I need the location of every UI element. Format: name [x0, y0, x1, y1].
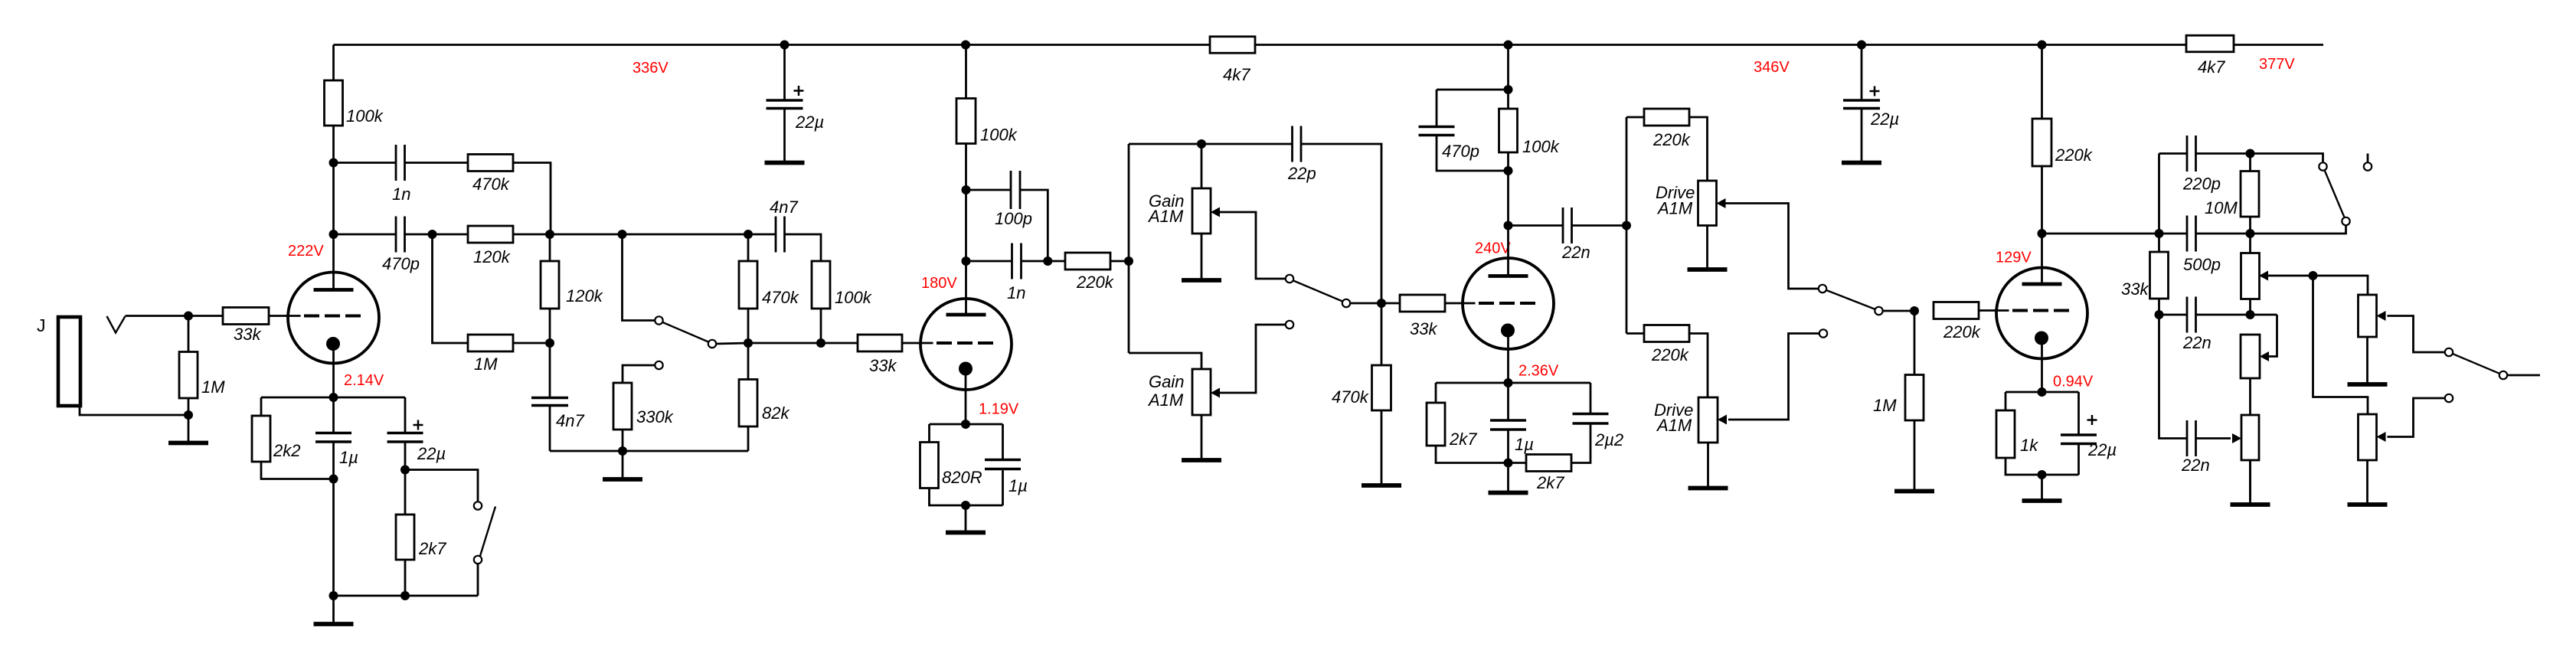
wire 220k to gain node [1110, 260, 1129, 263]
svg-text:2k7: 2k7 [418, 539, 446, 558]
plus 22u cathode [414, 420, 423, 430]
wire to switch S1 pole [2251, 154, 2323, 163]
node V2 cathode [961, 420, 970, 429]
label 1M [1873, 396, 1897, 415]
ground V3 cathode [1489, 463, 1528, 493]
wire drive column [1626, 117, 1628, 334]
svg-text:129V: 129V [1996, 250, 2032, 266]
wire 220p row right [2196, 152, 2251, 155]
svg-text:240V: 240V [1475, 240, 1511, 257]
wire drive1 wiper [1726, 204, 1819, 289]
svg-text:1M: 1M [474, 355, 498, 374]
svg-text:1M: 1M [1873, 396, 1897, 415]
wire to 33k V3 [1381, 302, 1400, 305]
wire row to S1 lower [2251, 226, 2346, 234]
switch S2 throw up [2445, 348, 2453, 356]
wire 2k7 top [404, 470, 407, 515]
svg-text:22µ: 22µ [1870, 109, 1899, 129]
label 470p [382, 254, 420, 273]
svg-text:1.19V: 1.19V [979, 401, 1019, 418]
switch C pole [1875, 307, 1882, 315]
ground filter 1 [765, 109, 805, 163]
capacitor 22n tone upper [2187, 297, 2196, 333]
ground V1 cathode [314, 596, 354, 624]
switch B lever [1293, 281, 1342, 302]
svg-text:22p: 22p [1287, 164, 1316, 183]
resistor 330k [613, 383, 632, 430]
label 22n [2181, 456, 2210, 475]
label 22µ [2087, 440, 2117, 459]
svg-text:33k: 33k [869, 356, 897, 375]
label A1M [1147, 207, 1184, 226]
node V1 plate row2 [329, 230, 338, 239]
svg-text:222V: 222V [288, 243, 324, 260]
svg-text:100k: 100k [1522, 137, 1560, 156]
svg-text:10M: 10M [2205, 198, 2238, 217]
wire 22p to V3 grid node [1301, 144, 1381, 303]
label 336V rail [633, 60, 669, 77]
resistor 100k vertical mixer [812, 261, 830, 309]
node 500p pot top [2246, 229, 2255, 238]
svg-text:22n: 22n [2181, 456, 2210, 475]
node 120k-1M junction [545, 338, 554, 348]
wire filter cap 1 lead [783, 45, 786, 101]
wiper pot 500p [2259, 271, 2268, 281]
resistor 4k7 rail dropper 1 [1210, 37, 1255, 54]
node V2 grid junction [744, 338, 753, 348]
svg-text:1n: 1n [392, 185, 410, 204]
potentiometer Drive A1M upper [1698, 181, 1717, 226]
wire 220k to V4 grid [1979, 309, 1997, 312]
capacitor 1u cathode V1 [315, 433, 351, 443]
resistor 100k plate V3 [1499, 109, 1518, 152]
label 2µ2 [1594, 430, 1623, 449]
label 330k [636, 407, 674, 426]
wire vol lower wiper out [2388, 398, 2445, 437]
ground input [168, 415, 208, 443]
node V2 row 100p [962, 185, 971, 194]
resistor 100k plate V2 [956, 99, 976, 144]
label 100p [995, 209, 1032, 228]
svg-text:1k: 1k [2020, 436, 2038, 455]
wire vol upper wiper out [2388, 316, 2445, 353]
wire gain top row [1129, 143, 1293, 145]
capacitor 1u cathode V2 [985, 460, 1021, 469]
capacitor 100p [1011, 171, 1020, 209]
svg-text:346V: 346V [1754, 59, 1790, 76]
svg-text:100k: 100k [835, 288, 872, 307]
input arrow [107, 316, 126, 333]
resistor 2k7 cathode switch [396, 515, 414, 560]
wire 2k2 bottom [261, 462, 334, 479]
ground gain pot 1 [1182, 234, 1221, 280]
wire 22u top V4 [2077, 392, 2080, 435]
svg-text:2k7: 2k7 [1449, 430, 1477, 449]
switch D bottom [474, 556, 482, 564]
label 22n [1561, 243, 1590, 262]
wire V3 plate column [1507, 45, 1509, 278]
resistor 10M [2241, 172, 2259, 217]
node V3 cathode bottom [1504, 459, 1513, 468]
wire 1u bottom V2 [1002, 469, 1004, 506]
resistor 2k2 cathode [252, 416, 270, 462]
label 82k [762, 404, 789, 423]
wire node to switch D [405, 470, 478, 502]
potentiometer Gain A1M upper [1192, 188, 1211, 234]
wire pot500 wiper out [2268, 276, 2368, 295]
label 470k [472, 175, 510, 194]
svg-text:1µ: 1µ [1515, 435, 1534, 454]
potentiometer 22n section lower [2241, 415, 2259, 460]
wire 10M bottom lead [2249, 217, 2251, 234]
triode V4 [1996, 268, 2088, 359]
label 220k [2055, 145, 2093, 165]
label 22p [1287, 164, 1316, 183]
svg-text:4n7: 4n7 [770, 198, 798, 217]
label 470k [1332, 387, 1369, 407]
wire 1M grid leak top [1914, 311, 1916, 375]
label 500p [2183, 255, 2221, 274]
svg-text:120k: 120k [566, 286, 603, 305]
wire 33k to V2 grid [902, 342, 921, 345]
wire 33k to V3 grid [1445, 302, 1463, 305]
label 220k [1651, 345, 1689, 364]
label 22n [2182, 333, 2212, 352]
wire cathode row [261, 397, 405, 399]
wire gain2 wiper [1220, 325, 1286, 393]
node row2 at 470k column [744, 230, 753, 239]
svg-text:220k: 220k [2055, 145, 2093, 165]
resistor 82k [739, 380, 757, 427]
wire V4 plate column upper [2041, 45, 2043, 119]
wire row2 right [513, 234, 776, 236]
node gain pot 1 top [1197, 139, 1206, 149]
svg-text:1µ: 1µ [339, 448, 358, 467]
label Gain [1149, 191, 1184, 211]
wire 22u top lead [404, 397, 407, 433]
wire row1 right corner [513, 163, 551, 235]
node rail filter 1 [780, 41, 789, 50]
resistor 1M grid leak V4 [1905, 375, 1924, 421]
node rail filter 2 [1857, 41, 1866, 50]
svg-text:82k: 82k [762, 404, 789, 423]
node cathode bottom 1 [329, 591, 338, 600]
label 1.19V cathode V2 [979, 401, 1019, 418]
svg-text:470k: 470k [762, 288, 799, 307]
node V2 cathode bottom [961, 501, 970, 510]
wire 33k tone bottom [2158, 299, 2160, 315]
svg-text:2k2: 2k2 [273, 441, 300, 460]
ground drive pot 2 [1688, 443, 1728, 488]
node row2 at 120k vert [545, 230, 554, 239]
node 10M top [2246, 149, 2255, 158]
node V1 plate row1 [329, 158, 338, 168]
label 1µ [1515, 435, 1534, 454]
label 100k [835, 288, 872, 307]
resistor 4k7 rail dropper 2 [2186, 35, 2234, 52]
wire 470p top lead [1436, 90, 1438, 127]
label 346V rail [1754, 59, 1790, 76]
wire 1u bottom V3 [1507, 430, 1509, 463]
wire 2k7 bottom V3 [1436, 446, 1526, 463]
resistor 33k grid stopper V2 [858, 335, 902, 351]
label 10M [2205, 198, 2238, 217]
svg-text:2.36V: 2.36V [1518, 363, 1559, 380]
label A1M [1656, 199, 1693, 218]
wire HT rail [334, 44, 2324, 46]
ground volume upper [2348, 337, 2388, 384]
label 100k [346, 106, 384, 126]
triode V3 [1463, 258, 1554, 349]
svg-text:470k: 470k [472, 175, 510, 194]
wire 1n to 220k [1022, 260, 1066, 263]
label A1M [1656, 416, 1692, 435]
wire V4 cathode row [2006, 391, 2079, 394]
wire switch A feed [623, 234, 655, 321]
wire 22n left [1509, 224, 1564, 227]
svg-text:220k: 220k [1651, 345, 1689, 364]
resistor 1k cathode V4 [1996, 410, 2015, 458]
wire wiper junction down [2313, 276, 2368, 414]
wire switch A out [717, 343, 749, 344]
label 22µ [795, 113, 824, 132]
node V4 cathode [2038, 387, 2047, 397]
capacitor 4n7 shunt [531, 398, 568, 406]
label 100k [1522, 137, 1560, 156]
label 180V plate voltage V2 [921, 275, 957, 292]
svg-text:1µ: 1µ [1008, 476, 1028, 495]
wire 1k bottom [2006, 458, 2079, 475]
wire node to R 1M [188, 316, 190, 352]
triode V2 [920, 299, 1012, 390]
wire 1u top V2 [1002, 424, 1004, 460]
resistor 1M horizontal [468, 335, 513, 351]
resistor 820R [920, 443, 939, 488]
label A1M [1147, 390, 1184, 410]
node bottom row [618, 446, 627, 456]
label 33k [1410, 319, 1437, 338]
label 4k7 [1223, 65, 1250, 84]
svg-text:2.14V: 2.14V [344, 372, 384, 389]
wire gain column [1128, 144, 1130, 353]
wire 22n lower to wiper [2196, 437, 2231, 439]
ground V2 cathode [946, 505, 986, 533]
wire gain pot 2 feed [1129, 353, 1201, 369]
wire row2 to 100k vert [785, 234, 822, 343]
label 120k [473, 247, 511, 266]
triode V1 [288, 273, 380, 364]
label 220k [1652, 130, 1691, 149]
wire grid row V2 [748, 342, 858, 345]
wire V2 cathode row [930, 423, 1003, 426]
label 1µ [339, 448, 358, 467]
wire 100p left [966, 189, 1012, 191]
node V3 grid [1377, 299, 1386, 308]
capacitor 220p [2187, 136, 2196, 172]
wire bottom row left stage [550, 450, 748, 453]
wire V2 cathode lead [965, 369, 967, 425]
wire V3 cathode row [1436, 382, 1590, 384]
node 22n row left [2155, 310, 2164, 319]
capacitor 500p [2187, 216, 2196, 252]
switch B throw up [1286, 275, 1293, 283]
label 100k [980, 126, 1018, 145]
label 4n7 [556, 411, 584, 430]
label 2k2 [273, 441, 300, 460]
switch A lever [663, 322, 709, 342]
capacitor 470p [396, 217, 405, 253]
capacitor 22p feedback [1293, 126, 1302, 162]
label 220p [2182, 175, 2221, 194]
node pot 22n top [2246, 310, 2255, 319]
label 1k [2020, 436, 2038, 455]
node rail V2 [961, 41, 970, 50]
wire drive top feed [1626, 116, 1644, 119]
resistor 220k plate V4 [2032, 119, 2051, 166]
wire 22u bottom [404, 442, 407, 470]
wire pot500 top lead [2249, 234, 2251, 253]
label 33k [234, 325, 261, 344]
node tone column top [2155, 229, 2164, 238]
jack J [58, 317, 80, 406]
label Drive [1656, 183, 1695, 202]
svg-text:4k7: 4k7 [2198, 57, 2225, 77]
label 0.94V cathode V4 [2053, 374, 2094, 390]
wire 1u top V3 [1507, 383, 1509, 420]
ground pot chain [2231, 460, 2270, 505]
label 820R [942, 468, 982, 487]
potentiometer Drive A1M lower [1698, 397, 1718, 443]
resistor 220k drive upper [1644, 109, 1689, 126]
svg-text:100k: 100k [346, 106, 384, 126]
switch B pole [1342, 299, 1350, 307]
svg-text:J: J [37, 315, 46, 335]
svg-text:100k: 100k [980, 126, 1018, 145]
wire 82k top [747, 343, 750, 380]
node V1 cathode [329, 393, 338, 402]
node 470p top [1504, 85, 1513, 94]
switch C lever [1826, 290, 1875, 309]
node 470p bottom [1504, 166, 1513, 175]
wire filter cap 2 lead [1861, 45, 1863, 101]
svg-text:100p: 100p [995, 209, 1032, 228]
switch S1 throw open [2364, 162, 2372, 170]
wire row1 left [334, 162, 397, 164]
node rail V3 [1504, 41, 1513, 50]
resistor 33k tone [2150, 252, 2169, 299]
wiper pot 22n upper [2260, 351, 2269, 361]
wire 330k to bottom row [622, 430, 624, 451]
switch A throw 1 [708, 340, 716, 348]
resistor 120k vertical [541, 261, 559, 309]
wire S1 open stub [2367, 154, 2369, 163]
label 2.14V cathode voltage [344, 372, 384, 389]
label 2k7 [418, 539, 446, 558]
svg-text:A1M: A1M [1147, 390, 1184, 410]
wire 22u bottom V4 [2077, 444, 2080, 475]
wire pot500 bottom lead [2249, 299, 2251, 315]
svg-text:33k: 33k [234, 325, 261, 344]
svg-text:470p: 470p [382, 254, 420, 273]
label 470k [762, 288, 799, 307]
node input [184, 312, 193, 321]
svg-text:1M: 1M [201, 377, 225, 397]
resistor 2k7 cathode V3 [1427, 403, 1445, 446]
switch S2 throw down [2445, 394, 2453, 402]
switch S1 pole [2319, 162, 2326, 170]
wire pot chain ground [2249, 460, 2251, 500]
label 377V rail end [2259, 56, 2295, 73]
svg-text:22µ: 22µ [795, 113, 824, 132]
plus 22u filter 1 [794, 86, 804, 96]
wire 470p top row [1437, 89, 1509, 91]
label 22µ [417, 444, 446, 463]
resistor 470k vertical [739, 261, 757, 309]
plus 22u cathode V4 [2087, 415, 2097, 425]
label 33k [2121, 279, 2149, 299]
svg-text:470p: 470p [1442, 142, 1479, 161]
svg-text:220k: 220k [1076, 273, 1114, 292]
wire 2u2 bottom [1571, 423, 1590, 463]
svg-text:470k: 470k [1332, 387, 1369, 407]
switch A throw 2 [655, 361, 662, 369]
wire gain pot 1 lead [1201, 144, 1203, 188]
label 220k [1076, 273, 1114, 292]
capacitor 470p plate bypass [1419, 127, 1455, 136]
wire switch C out [1883, 310, 1914, 312]
wire gain1 wiper [1220, 212, 1286, 279]
wire 470p bottom lead [1437, 136, 1509, 172]
node row2 at switch column [618, 230, 627, 239]
wire 120k vert column [549, 234, 551, 398]
node V3 plate out [1504, 221, 1513, 230]
node cathode bottom 2 [400, 591, 410, 600]
wiper drive 2 [1718, 415, 1727, 425]
label 2k7 [1449, 430, 1477, 449]
wiper volume upper [2377, 311, 2386, 321]
node 100k vert junction [816, 338, 825, 348]
svg-text:4k7: 4k7 [1223, 65, 1250, 84]
label J input jack [37, 315, 46, 335]
plus 22u filter 2 [1870, 87, 1880, 96]
wire 82k bottom [747, 426, 750, 451]
capacitor 2u2 cathode V3 [1573, 414, 1609, 424]
capacitor 22u cathode V4 [2061, 435, 2097, 444]
resistor 1M grid leak [179, 352, 198, 399]
label 470p [1442, 142, 1479, 161]
wiper gain 2 [1211, 388, 1220, 398]
node 1M bottom [184, 410, 193, 420]
node V4 plate out [2038, 229, 2047, 238]
node 22u-2k7 [400, 466, 410, 475]
svg-text:820R: 820R [942, 468, 982, 487]
resistor 33k grid stopper V1 [223, 308, 269, 325]
wire 100p right corner [1020, 190, 1048, 261]
svg-text:4n7: 4n7 [556, 411, 584, 430]
node rail V4 [2038, 41, 2047, 50]
wire V4 out row [2042, 233, 2188, 235]
node gain feed [1124, 256, 1133, 266]
switch D lever [480, 507, 495, 557]
switch B throw down [1286, 321, 1293, 328]
svg-text:220k: 220k [1652, 130, 1691, 149]
wire 2k7 bottom [404, 560, 407, 596]
wire pot 22n wiper loop [2269, 315, 2277, 357]
resistor 120k horizontal [468, 226, 513, 243]
node row2 junction A [428, 230, 437, 239]
wire 2u2 top [1590, 383, 1592, 414]
wire V3 cathode lead [1507, 331, 1509, 384]
